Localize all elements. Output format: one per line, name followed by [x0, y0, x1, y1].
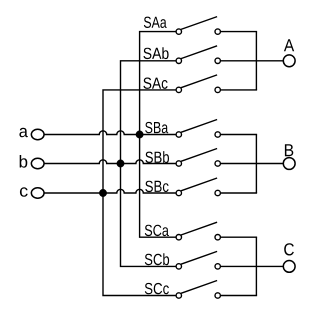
switch SAb	[176, 46, 220, 64]
junction node a	[136, 131, 143, 138]
label input a	[19, 128, 28, 138]
switch SCa	[176, 222, 220, 240]
label SBa	[145, 122, 168, 133]
switch SAc	[176, 75, 220, 93]
label output C	[284, 243, 294, 255]
output terminal B	[283, 158, 295, 170]
junction node b	[117, 160, 124, 167]
wire SCb through bus C to output C	[221, 265, 283, 267]
label SBc	[145, 181, 168, 192]
switch SAa	[176, 17, 220, 35]
wire SAb through bus A to output A	[221, 60, 283, 62]
label SCa	[145, 225, 169, 236]
wire branch a (input a up to SAa, down to SCa)	[140, 32, 176, 238]
wire SBc to bus B	[221, 192, 257, 194]
wire SAc to bus A	[221, 89, 257, 91]
switch SBb	[176, 149, 220, 167]
label SAa	[144, 17, 167, 28]
wire SCc to bus C	[221, 295, 257, 297]
input terminal a	[31, 129, 44, 140]
bus A	[255, 32, 257, 90]
label SAb	[143, 47, 168, 59]
wire branch b (input b up to SAb, down to SCb)	[121, 61, 176, 267]
wire input b to SBb (hops over c and a branches)	[44, 160, 175, 164]
wire input a to SBa (hops over c and b branches)	[44, 131, 175, 135]
bus C	[255, 237, 257, 295]
output terminal A	[283, 55, 295, 67]
switch SBa	[176, 120, 220, 138]
label SBb	[145, 151, 169, 163]
wire SCa to bus C	[221, 236, 257, 238]
label SAc	[143, 78, 167, 89]
wire branch c (input c up to SAc, down to SCc)	[103, 90, 176, 296]
input terminal c	[31, 188, 44, 199]
switch SCc	[176, 281, 220, 299]
label SCc	[145, 283, 169, 294]
label SCb	[145, 253, 169, 265]
wire SBa to bus B	[221, 134, 257, 136]
input terminal b	[31, 158, 44, 169]
wire input c to SBc (hops over b and a branches)	[44, 189, 175, 193]
switch SBc	[176, 178, 220, 196]
wire SBb through bus B to output B	[221, 163, 283, 165]
switch SCb	[176, 251, 220, 269]
label input b	[20, 155, 28, 168]
output terminal C	[283, 261, 295, 273]
label output A	[284, 39, 294, 51]
junction node c	[100, 190, 107, 197]
label input c	[20, 187, 28, 197]
bus B	[255, 135, 257, 194]
label output B	[285, 144, 293, 156]
wire SAa to bus A	[221, 31, 257, 33]
